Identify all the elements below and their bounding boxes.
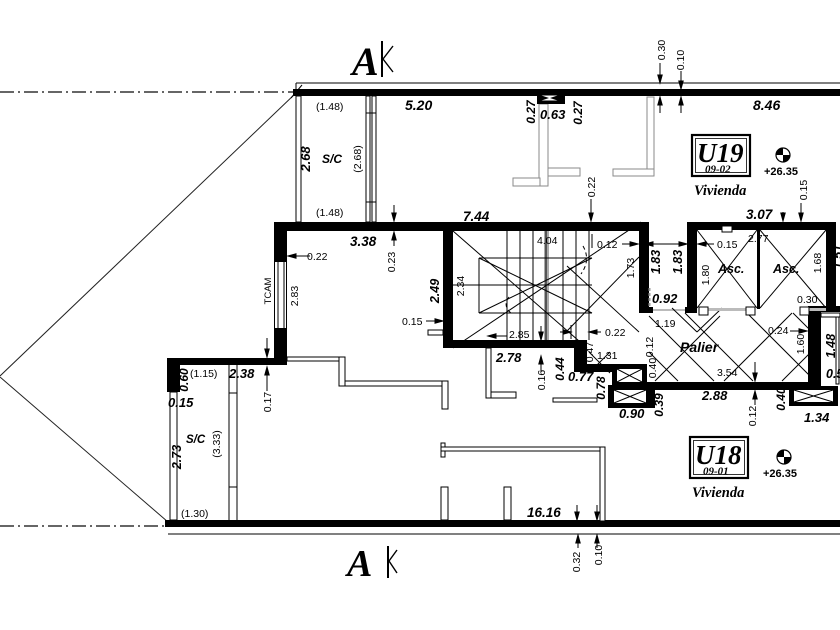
svg-text:0.27: 0.27 bbox=[524, 99, 538, 124]
svg-text:2.68: 2.68 bbox=[298, 146, 313, 173]
svg-text:0.44: 0.44 bbox=[553, 357, 567, 381]
svg-text:2.78: 2.78 bbox=[495, 350, 522, 365]
svg-text:TCAM: TCAM bbox=[263, 277, 274, 304]
svg-text:0.39: 0.39 bbox=[652, 393, 666, 417]
svg-text:16.16: 16.16 bbox=[527, 505, 561, 520]
svg-text:0.15: 0.15 bbox=[402, 316, 423, 328]
svg-text:(1.30): (1.30) bbox=[181, 508, 208, 520]
svg-text:1.83: 1.83 bbox=[671, 250, 685, 274]
svg-text:1.60: 1.60 bbox=[795, 334, 807, 355]
svg-text:0.30: 0.30 bbox=[656, 40, 668, 61]
svg-text:S/C: S/C bbox=[186, 434, 206, 446]
svg-text:2.88: 2.88 bbox=[701, 388, 728, 403]
svg-text:0.77: 0.77 bbox=[568, 369, 594, 384]
svg-text:(1.15): (1.15) bbox=[190, 368, 217, 380]
svg-text:A: A bbox=[345, 543, 372, 585]
svg-text:1.19: 1.19 bbox=[655, 318, 676, 330]
svg-text:Asc.: Asc. bbox=[772, 262, 799, 276]
svg-text:0.10: 0.10 bbox=[675, 50, 687, 71]
svg-text:5.20: 5.20 bbox=[405, 97, 432, 113]
svg-text:Vivienda: Vivienda bbox=[694, 183, 746, 199]
svg-text:0.40: 0.40 bbox=[647, 358, 659, 379]
svg-text:0.12: 0.12 bbox=[747, 406, 759, 427]
svg-text:2.73: 2.73 bbox=[170, 445, 184, 470]
svg-text:1.31: 1.31 bbox=[597, 350, 618, 362]
svg-text:0.15: 0.15 bbox=[168, 395, 194, 410]
svg-text:1.34: 1.34 bbox=[804, 410, 830, 425]
svg-text:1.48: 1.48 bbox=[824, 334, 838, 358]
svg-text:2.49: 2.49 bbox=[428, 279, 442, 304]
svg-text:1.83: 1.83 bbox=[649, 250, 663, 274]
svg-text:+26.35: +26.35 bbox=[764, 166, 798, 178]
svg-text:0.15: 0.15 bbox=[798, 180, 810, 201]
svg-text:Vivienda: Vivienda bbox=[692, 485, 744, 501]
svg-text:S/C: S/C bbox=[322, 152, 342, 166]
svg-text:0.12: 0.12 bbox=[597, 239, 618, 251]
svg-text:0.60: 0.60 bbox=[177, 368, 191, 392]
svg-text:0.92: 0.92 bbox=[652, 291, 678, 306]
svg-text:1.80: 1.80 bbox=[700, 265, 712, 286]
svg-text:0.24: 0.24 bbox=[768, 325, 789, 337]
svg-text:4.04: 4.04 bbox=[537, 235, 558, 247]
svg-text:0.27: 0.27 bbox=[571, 100, 585, 125]
svg-text:3.54: 3.54 bbox=[717, 367, 738, 379]
svg-text:0.78: 0.78 bbox=[594, 376, 608, 400]
svg-text:0.17: 0.17 bbox=[262, 392, 274, 413]
svg-text:0.15: 0.15 bbox=[717, 239, 738, 251]
svg-text:0.22: 0.22 bbox=[307, 251, 328, 263]
svg-text:2.77: 2.77 bbox=[748, 233, 769, 245]
svg-text:(1.48): (1.48) bbox=[316, 101, 343, 113]
svg-text:0.63: 0.63 bbox=[540, 107, 566, 122]
svg-text:3.07: 3.07 bbox=[746, 207, 774, 222]
svg-text:1.73: 1.73 bbox=[625, 258, 637, 279]
svg-text:7.44: 7.44 bbox=[463, 209, 490, 224]
svg-text:3.38: 3.38 bbox=[350, 234, 377, 249]
svg-text:0.16: 0.16 bbox=[536, 370, 548, 391]
svg-text:(3.33): (3.33) bbox=[211, 430, 223, 457]
svg-text:0.22: 0.22 bbox=[586, 177, 598, 198]
svg-text:0.54: 0.54 bbox=[826, 367, 840, 381]
svg-text:09-02: 09-02 bbox=[705, 164, 731, 176]
svg-text:(2.68): (2.68) bbox=[352, 145, 364, 172]
svg-text:09-01: 09-01 bbox=[703, 466, 729, 478]
svg-text:0.47: 0.47 bbox=[584, 342, 596, 363]
svg-text:Palier: Palier bbox=[680, 339, 720, 355]
svg-text:0.23: 0.23 bbox=[386, 252, 398, 273]
svg-text:0.22: 0.22 bbox=[605, 327, 626, 339]
svg-text:+26.35: +26.35 bbox=[763, 468, 797, 480]
svg-text:A: A bbox=[349, 39, 379, 84]
svg-text:(1.48): (1.48) bbox=[316, 207, 343, 219]
svg-text:0.12: 0.12 bbox=[644, 337, 656, 358]
svg-text:2.38: 2.38 bbox=[228, 366, 255, 381]
svg-text:2.85: 2.85 bbox=[509, 329, 530, 341]
svg-text:8.46: 8.46 bbox=[753, 97, 780, 113]
svg-text:0.90: 0.90 bbox=[619, 406, 645, 421]
svg-text:Asc.: Asc. bbox=[717, 262, 744, 276]
svg-text:1.51: 1.51 bbox=[831, 245, 840, 269]
svg-text:0.10: 0.10 bbox=[593, 545, 605, 566]
svg-text:2.83: 2.83 bbox=[289, 286, 301, 307]
svg-text:0.32: 0.32 bbox=[571, 552, 583, 573]
svg-text:0.40: 0.40 bbox=[774, 387, 788, 411]
svg-text:0.30: 0.30 bbox=[797, 294, 818, 306]
svg-text:2.34: 2.34 bbox=[455, 276, 467, 297]
svg-text:1.68: 1.68 bbox=[812, 253, 824, 274]
